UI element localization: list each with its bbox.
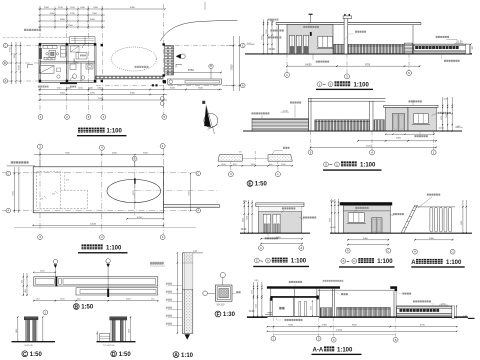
roof plan: left dimension lines	[13, 167, 15, 213]
furniture: bottom-left room bed with diagonal	[40, 66, 55, 73]
svg-text:4000: 4000	[112, 153, 118, 155]
elevCA: dimension below	[261, 238, 302, 240]
dashed canopy line above plan	[3, 37, 70, 39]
elev1: leader text canopy top	[303, 26, 305, 28]
furniture: bottom-left side table	[57, 68, 61, 72]
elev2: building right block with window	[408, 107, 436, 130]
svg-text:600: 600	[21, 280, 23, 283]
caption: detail C	[22, 351, 28, 357]
wall niche mark	[28, 65, 34, 69]
svg-text:C: C	[23, 352, 27, 358]
svg-text:±0.00: ±0.00	[249, 311, 255, 313]
svg-text:A: A	[411, 260, 416, 266]
svg-text:7536: 7536	[288, 324, 294, 326]
sectAA: dimension row 1	[267, 326, 456, 328]
elev2: ground leader text	[419, 131, 421, 135]
elev1: sign wall with stripes	[413, 44, 467, 54]
svg-text:2100: 2100	[58, 7, 64, 9]
furniture: low squares row	[44, 57, 47, 60]
svg-text:1400: 1400	[80, 7, 86, 9]
svg-text:7500: 7500	[68, 25, 74, 27]
elev2: tall gate post	[370, 101, 374, 131]
detail A: left annotation ticks	[168, 284, 182, 286]
roof plan: black tick at ellipse axis	[134, 178, 135, 184]
svg-text:A: A	[414, 250, 416, 254]
svg-text:6730: 6730	[420, 324, 426, 326]
svg-text:1:50: 1:50	[255, 182, 268, 188]
svg-text:±0.00: ±0.00	[269, 48, 276, 51]
svg-text:1:100: 1:100	[446, 260, 462, 266]
caption: detail A	[173, 352, 179, 358]
elevAC: wall	[343, 205, 390, 233]
floor plan: horizontal grid dashes	[8, 45, 39, 47]
elev2: ground line	[243, 130, 462, 132]
svg-text:3900: 3900	[50, 13, 56, 15]
furniture: top-right room stairs	[71, 46, 80, 52]
detail E: left slab with stipple	[218, 155, 242, 162]
sectAA: gate end post	[393, 291, 395, 317]
elev1: entrance doors	[290, 35, 295, 53]
svg-text:2400: 2400	[256, 304, 258, 308]
elev2: wall leader text right	[438, 112, 440, 114]
svg-text:1:100: 1:100	[360, 163, 376, 169]
viewA: right dimension	[462, 200, 464, 233]
caption: floor plan title	[78, 128, 83, 133]
furniture: desk row top-left room	[43, 46, 57, 49]
detail F: leader text right	[232, 292, 236, 294]
curved road edge line	[161, 20, 238, 41]
svg-text:5400: 5400	[276, 237, 282, 239]
svg-text:7500: 7500	[65, 153, 71, 155]
floor plan: left dimension lines	[11, 42, 13, 84]
detail C: column cap	[24, 317, 38, 320]
svg-text:9750: 9750	[365, 64, 371, 66]
ramp dark bar below south wall	[60, 82, 77, 84]
detail A: bottom arrow	[185, 334, 191, 340]
floor plan: grid axis lines	[39, 6, 41, 115]
svg-text:1:100: 1:100	[106, 245, 122, 251]
building interior walls	[66, 44, 68, 82]
bathroom partition wall	[80, 63, 82, 82]
roof plan: bottom dimension lines	[127, 218, 164, 220]
section marker triangle with circle	[176, 54, 181, 58]
svg-text:C: C	[260, 246, 262, 250]
svg-text:5540: 5540	[198, 88, 204, 90]
svg-text:~: ~	[323, 83, 326, 89]
entrance canopy top-right	[70, 37, 96, 44]
note: canopy detail reference text	[24, 29, 26, 31]
svg-text:2%: 2%	[40, 199, 43, 201]
elevCA: ground line	[240, 232, 310, 234]
elev2: building roof slab	[384, 105, 438, 107]
leader marker B above track	[209, 64, 213, 68]
svg-text:2360: 2360	[322, 324, 328, 326]
sectAA: interior door leaves	[299, 302, 301, 317]
svg-text:7500: 7500	[247, 216, 249, 220]
bathroom fixtures bottom-right room	[73, 74, 77, 79]
svg-text:1:50: 1:50	[30, 352, 43, 358]
elev1: fence pickets left of post	[334, 44, 344, 54]
bottom dimension lines of plan	[38, 89, 222, 91]
svg-text:1:100: 1:100	[354, 82, 370, 88]
elev1: sign text company name	[415, 46, 418, 49]
svg-text:1500: 1500	[92, 13, 98, 15]
svg-text:3600: 3600	[60, 19, 66, 21]
detail B: section flag left	[53, 259, 57, 263]
svg-text:~: ~	[329, 163, 332, 169]
building outer walls	[39, 44, 96, 83]
elev1: flower bed leader right	[441, 54, 443, 59]
svg-text:A: A	[300, 246, 302, 250]
svg-text:14040: 14040	[336, 330, 343, 332]
viewA: vertical pylons	[430, 207, 433, 232]
svg-text:A: A	[197, 209, 199, 213]
elev2: leader texts left	[252, 112, 254, 114]
viewA: dimension below	[415, 239, 453, 241]
door swing arcs	[74, 59, 79, 64]
svg-text:7500: 7500	[231, 64, 234, 70]
svg-text:8520: 8520	[352, 324, 358, 326]
elev1: sign wall left edge full height	[412, 25, 414, 54]
svg-text:2560: 2560	[66, 88, 72, 90]
elev2: gate portal post and beam	[307, 98, 309, 131]
svg-text:B: B	[134, 157, 136, 161]
caption: elevation A-C	[341, 259, 346, 264]
detail C: column posts	[24, 320, 26, 342]
roof plan: right axis bubbles	[196, 171, 201, 176]
sectAA: left wall	[269, 298, 271, 317]
svg-text:C: C	[256, 259, 258, 263]
elevCA: door unit 2	[273, 214, 280, 233]
elevAC: black roof slab	[340, 202, 393, 205]
svg-text:3240: 3240	[170, 88, 176, 90]
sectAA: left dimension stack	[253, 282, 255, 318]
svg-text:A-A: A-A	[313, 347, 324, 353]
elev2: dimension lines below	[386, 133, 434, 135]
roof plan: bottom axis bubbles	[99, 235, 104, 240]
svg-text:2400: 2400	[44, 7, 50, 9]
detail D: right dimension	[130, 317, 132, 342]
svg-text:A: A	[174, 353, 178, 359]
elevCA: leader text eaves	[282, 207, 284, 209]
elevCA: left dimension stack	[243, 200, 245, 233]
svg-text:5250: 5250	[60, 93, 66, 95]
caption: elevation C-A	[255, 258, 260, 263]
detail F: circle above	[220, 273, 225, 278]
sectAA: right small dimension	[456, 306, 458, 318]
detail B: top beam outer	[34, 277, 158, 286]
svg-text:1:50: 1:50	[119, 352, 132, 358]
detail F: circle left	[203, 291, 208, 296]
elevAC: window	[348, 213, 364, 223]
svg-text:3000: 3000	[252, 290, 254, 294]
svg-text:A: A	[267, 259, 269, 263]
roof plan: top dimension line	[34, 154, 164, 156]
elev2: right dimension stack	[442, 97, 444, 131]
detail A: left dimension line	[176, 253, 178, 333]
elevCA: door unit 1	[263, 214, 270, 233]
caption: elevation 1-5	[317, 82, 322, 87]
driveway island dashed ellipse	[112, 47, 157, 71]
svg-text:3500: 3500	[143, 153, 149, 155]
elevAC: leader text eaves	[355, 207, 357, 209]
svg-text:1:100: 1:100	[107, 129, 123, 135]
viewA: ladder leader text	[427, 194, 429, 196]
svg-text:2400: 2400	[16, 329, 18, 333]
axis bubble C left	[3, 43, 7, 47]
detail E: center dashed line	[254, 151, 256, 164]
dimension 8750 above track	[168, 72, 221, 74]
svg-text:TZ GZ(103): TZ GZ(103)	[103, 345, 115, 347]
svg-text:C: C	[197, 171, 199, 175]
roof plan: track axis dash line	[135, 190, 219, 192]
axis bubbles right of plan	[241, 43, 246, 48]
window symbol left wall	[39, 48, 42, 59]
elev1: canopy post	[278, 25, 280, 54]
detail F: concentric squares	[215, 285, 232, 301]
elev1: roof slab and portal beam lines	[276, 22, 421, 24]
elev1: leader text sign top	[436, 36, 438, 38]
island label text	[135, 66, 137, 68]
sectAA: sign right post	[452, 306, 454, 319]
elev1: sign right end post	[466, 44, 470, 54]
sectAA: sign leader text A	[402, 293, 404, 295]
roof plan: ellipse vertical dimension	[134, 179, 136, 202]
caption: elevation 5-1	[324, 162, 329, 167]
elev1: below-ground leader	[312, 54, 314, 60]
detail D: side step block	[100, 333, 110, 341]
detail B: axis bubble below	[43, 310, 48, 315]
svg-text:~: ~	[260, 259, 263, 265]
furniture: top-right room bed	[76, 53, 87, 60]
sectAA: floor leader note	[277, 316, 283, 320]
sectAA: interior partition wall	[292, 298, 294, 317]
svg-text:1340: 1340	[97, 88, 103, 90]
svg-text:A: A	[347, 249, 349, 253]
elevCA: leader text wall paint	[303, 217, 305, 219]
sectAA: clerestory posts	[270, 289, 272, 296]
elevAC: leader text right	[393, 213, 395, 215]
elev1: roof leader texts left	[268, 19, 270, 21]
axis bubble B left	[3, 61, 7, 65]
detail E: right slab with stipple	[268, 155, 292, 162]
elev2: roof leader text	[409, 100, 411, 102]
svg-text:7500: 7500	[446, 114, 448, 118]
detail E: axis bubbles	[230, 161, 232, 171]
svg-text:3600: 3600	[441, 116, 443, 120]
gate strip black posts	[152, 84, 154, 86]
elev2: axis bubbles	[310, 131, 312, 150]
svg-text:1300: 1300	[93, 7, 99, 9]
detail B: lower beam	[76, 288, 158, 295]
caption: detail F	[215, 311, 221, 317]
axis bubbles below plan	[38, 115, 43, 120]
elev1: flag pole	[310, 15, 312, 23]
detail B: section flag right	[106, 259, 110, 263]
svg-text:50×150: 50×150	[217, 304, 225, 307]
svg-text:B: B	[74, 305, 78, 311]
svg-text:8750: 8750	[188, 68, 194, 72]
svg-text:4750: 4750	[137, 217, 143, 219]
gate vertical stored ladder	[165, 46, 174, 75]
roof plan: right vertical dimension	[190, 174, 192, 211]
svg-text:D: D	[112, 352, 116, 358]
sectAA: sign leader text B	[413, 300, 415, 302]
svg-text:C: C	[387, 249, 389, 253]
roof plan: left axis bubbles	[6, 171, 11, 176]
roof plan: bubble B with stem	[132, 156, 137, 161]
svg-text:1:100: 1:100	[291, 259, 307, 265]
svg-text:1:30: 1:30	[223, 312, 236, 318]
sectAA: entrance steps	[267, 312, 272, 314]
sectAA: axis bubble line	[273, 333, 395, 335]
sectAA: note text top	[323, 280, 325, 282]
svg-text:A: A	[242, 83, 244, 87]
detail B: black bar in beam	[55, 276, 57, 286]
elevCA: axis bubbles	[259, 246, 264, 251]
svg-text:25200: 25200	[366, 146, 373, 148]
roof plan: dashed building outline below	[37, 172, 61, 209]
elev1: tall portal post with finial cap	[344, 17, 348, 54]
stacked small marker bubbles on axis 5	[160, 97, 164, 101]
roof plan: long horizontal axis lines	[2, 172, 196, 174]
detail E: small ticks between slabs	[242, 157, 268, 159]
svg-text:A: A	[7, 209, 9, 213]
svg-text:14000: 14000	[305, 64, 312, 66]
elev2: building left block with door	[386, 107, 408, 130]
svg-text:7500: 7500	[98, 98, 104, 100]
furniture: chairs circles	[46, 53, 48, 55]
svg-text:C: C	[452, 250, 454, 254]
svg-text:~: ~	[346, 259, 349, 265]
gate open track bar	[168, 79, 222, 84]
svg-text:B: B	[4, 61, 6, 65]
svg-text:C: C	[5, 43, 7, 47]
detail C: ground line	[12, 341, 56, 343]
sectAA: interior vertical dimension	[311, 301, 313, 316]
sectAA: gate portal post	[331, 289, 333, 317]
detail E: leader flue text	[272, 150, 283, 154]
elev1: leader text fence	[355, 31, 357, 33]
svg-text:GZ(103): GZ(103)	[25, 345, 33, 347]
svg-text:1:50: 1:50	[81, 305, 94, 311]
detail B: top-left small dimension	[34, 271, 56, 273]
svg-text:±0.00: ±0.00	[241, 229, 247, 231]
svg-text:C: C	[242, 43, 244, 47]
furniture: table with inner square	[49, 51, 56, 58]
svg-text:5000: 5000	[461, 221, 463, 225]
elev1: dimension line below	[287, 65, 420, 67]
roof plan: outer rectangle	[33, 167, 163, 213]
elevCA: sand leader below	[267, 233, 269, 236]
right vertical dimension of plan	[233, 36, 235, 91]
roof plan: top axis bubbles	[39, 152, 41, 167]
caption: detail E	[247, 181, 253, 187]
sectAA: sign board band	[397, 308, 452, 313]
axis bubble A left	[3, 79, 7, 83]
detail C: right dimension	[42, 317, 44, 342]
black structural columns	[39, 43, 41, 45]
detail C: left dimension	[17, 317, 19, 342]
svg-text:2400: 2400	[129, 329, 131, 333]
elev2: fence pickets right segment	[374, 120, 385, 131]
sectAA: floor and ground lines	[247, 316, 268, 318]
detail A: top level line	[183, 252, 203, 254]
svg-text:1:100: 1:100	[337, 347, 353, 353]
svg-text:5400: 5400	[363, 238, 369, 240]
svg-text:3900: 3900	[90, 19, 96, 21]
detail D: column cap	[110, 317, 127, 320]
roof plan: vertical axis lines	[39, 149, 41, 230]
detail D: left small dimension	[96, 331, 98, 342]
sectAA: gate beam soffit line	[318, 289, 397, 291]
svg-text:C: C	[353, 259, 355, 263]
svg-text:1:10: 1:10	[181, 353, 194, 359]
svg-text:A: A	[5, 79, 7, 83]
elev1: ground line	[245, 53, 472, 55]
svg-text:2250: 2250	[90, 93, 96, 95]
svg-text:14040: 14040	[90, 223, 97, 225]
svg-text:5400: 5400	[396, 138, 402, 140]
sectAA: interior room label	[279, 307, 281, 310]
sectAA: axis bubbles	[272, 318, 274, 337]
viewA: axis bubbles	[413, 249, 418, 254]
detail B: top beam inner cells	[35, 278, 54, 284]
svg-text:3600: 3600	[330, 218, 332, 222]
detail D: ground line	[97, 341, 136, 343]
svg-text:F: F	[216, 312, 219, 318]
sectAA: sign text	[400, 309, 403, 312]
svg-text:±0.00: ±0.00	[330, 227, 336, 229]
detail A: wall strip	[182, 253, 192, 333]
elevCA: wall	[258, 206, 301, 233]
svg-text:900: 900	[472, 46, 474, 49]
detail B: note text right top	[151, 262, 153, 264]
door/window labels row under plan	[38, 86, 40, 88]
detail B: left dimension	[22, 273, 24, 296]
elevAC: left dimension stack	[331, 199, 333, 233]
sectAA: roof slab black with portal beam	[267, 286, 340, 288]
sectAA: sign wall	[397, 306, 452, 318]
svg-text:1160: 1160	[78, 88, 83, 90]
elev1: axis bubbles	[286, 54, 288, 72]
svg-text:6400: 6400	[130, 7, 136, 9]
elevAC: axis bubbles	[345, 248, 350, 253]
elev1: wall black fixture	[310, 32, 312, 36]
detail B: lower beam black bar	[107, 289, 109, 297]
sectAA: right wall	[316, 289, 318, 317]
sectAA: fence pickets in section right part	[337, 307, 391, 317]
floor plan: top dimension lines	[38, 8, 165, 10]
svg-text:3600: 3600	[242, 218, 244, 222]
elev2: fence pickets left segment	[315, 120, 370, 131]
elev2: sign wall back with stripes	[252, 118, 309, 130]
sectAA: fence pickets in section left part	[320, 308, 332, 317]
sectAA: roof leader text	[289, 281, 291, 283]
elev1: sign board band	[414, 45, 466, 50]
svg-text:2%: 2%	[66, 180, 69, 182]
sectAA: dimension row 2	[267, 330, 456, 332]
elev1: brick pillar	[404, 43, 412, 54]
elev1: left dimension stack	[263, 20, 265, 54]
svg-text:5400: 5400	[429, 238, 435, 240]
elevAC: dimension below	[348, 239, 389, 241]
detail A: top hatch marks	[185, 254, 192, 263]
viewA: access ladder diagonal	[401, 205, 415, 233]
svg-text:2%: 2%	[239, 152, 242, 154]
elev1: fence pickets right of post	[348, 44, 404, 54]
detail D: column posts	[110, 320, 112, 341]
